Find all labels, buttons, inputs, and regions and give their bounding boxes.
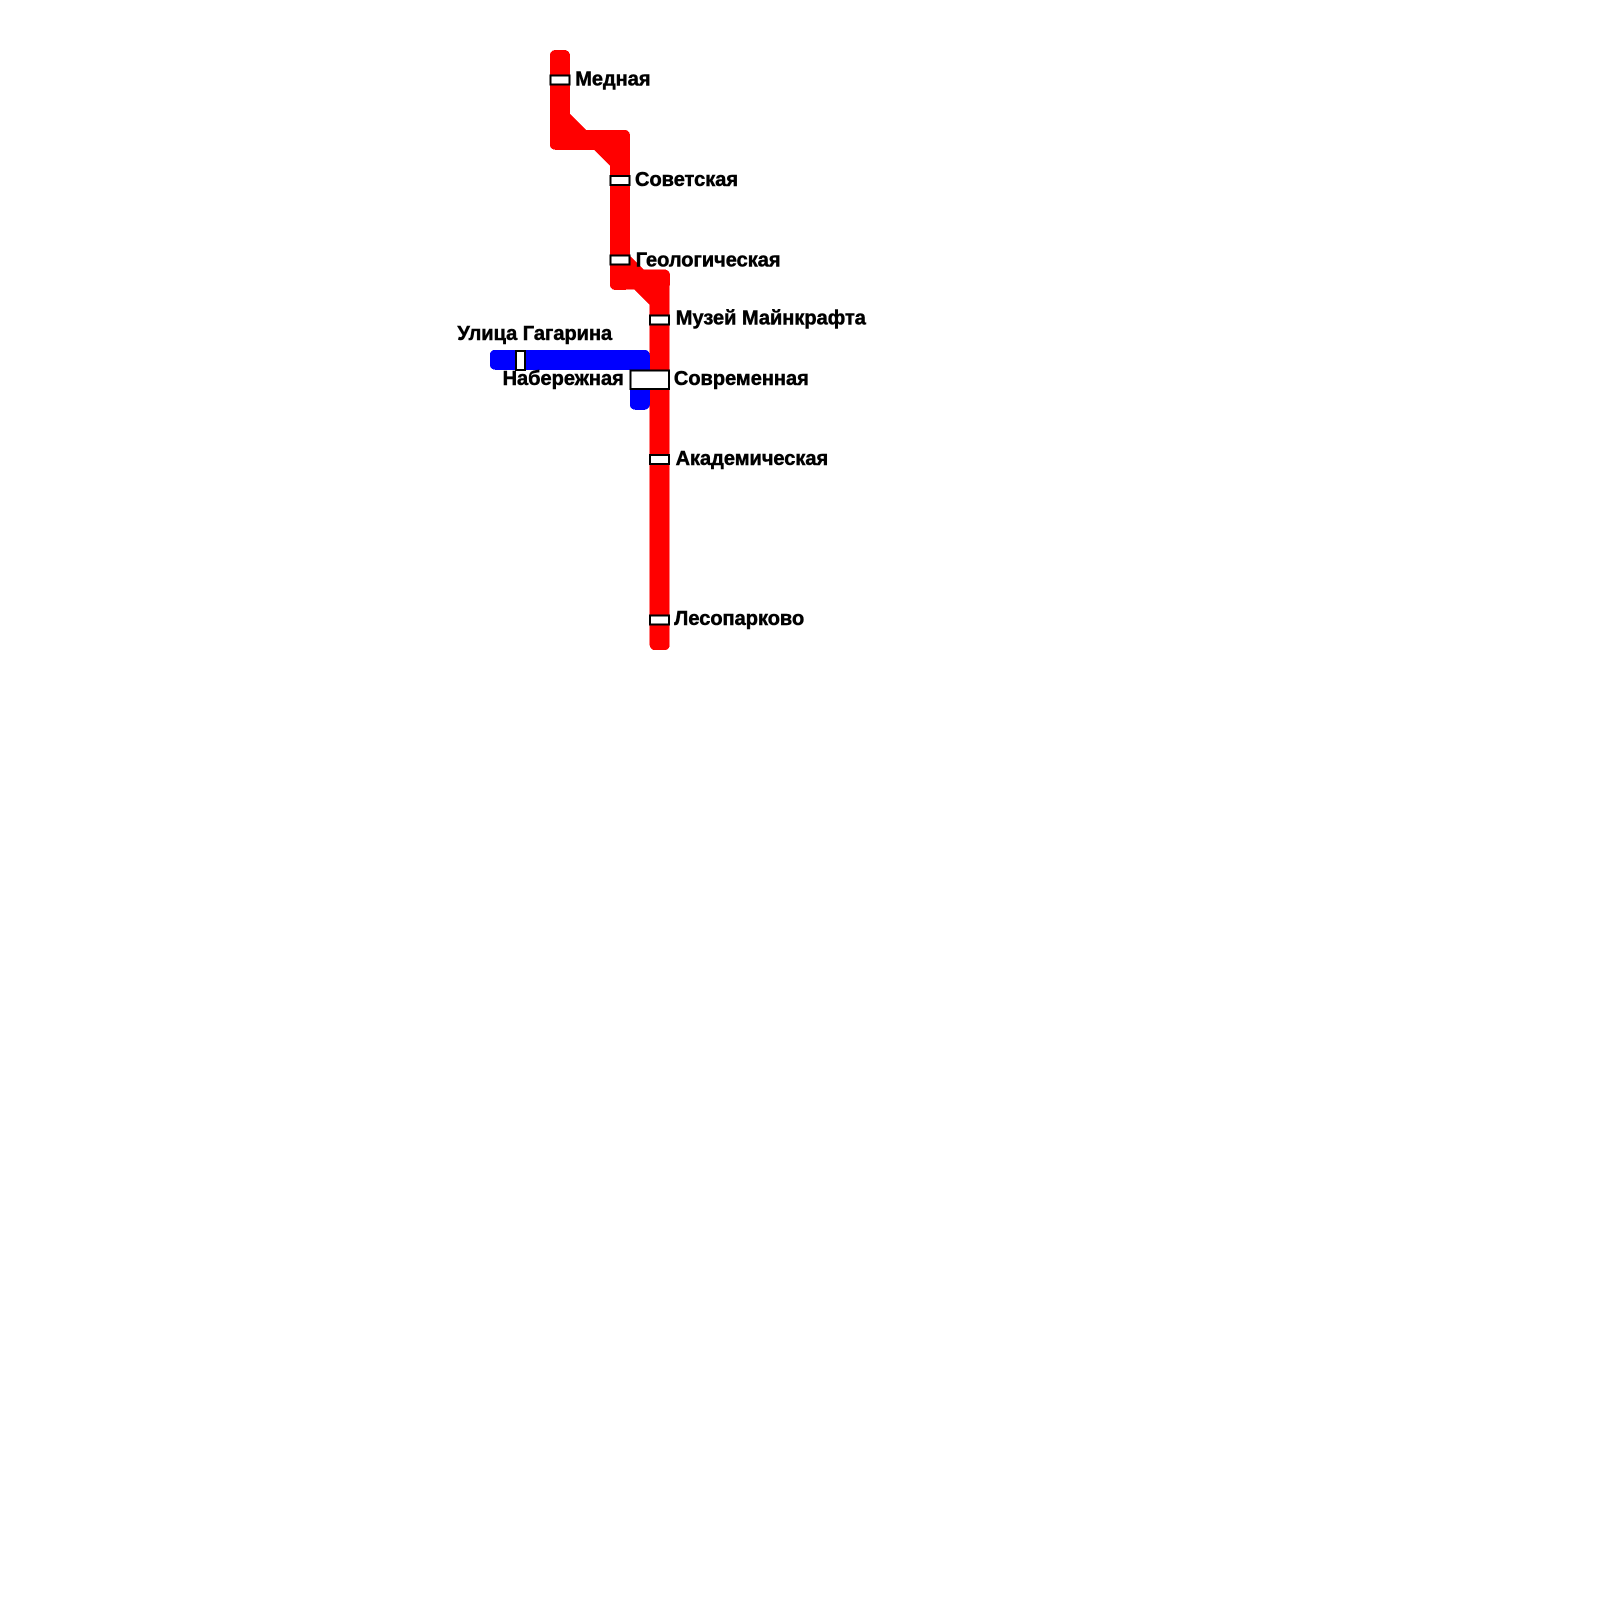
red line: horizontal connector at Музей bend [610,270,670,290]
station Академическая [650,455,669,464]
station Лесопарково [650,616,669,625]
station Геологическая [610,256,629,265]
svg-text:Медная: Медная [575,68,650,90]
red line: vertical segment Советская-Геологическая [610,130,630,290]
red line: diagonal segment Геологическая-Музей [620,260,660,300]
red line: vertical segment Музей-Лесопарково [650,270,670,651]
station Медная [550,76,569,85]
red line: horizontal jog segment [550,130,630,150]
svg-text:Геологическая: Геологическая [636,249,781,271]
red line: chamfer bend below Медная [560,118,582,140]
red line: chamfer bend toward Советская [598,140,620,162]
blue line: vertical segment down to terminus below Набережная [630,350,650,410]
station Музей Майнкрафта [650,316,669,325]
transfer station Современная / Набережная [631,370,670,388]
station Улица Гагарина [516,351,525,370]
svg-text:Академическая: Академическая [676,448,829,470]
svg-text:Лесопарково: Лесопарково [674,608,804,630]
svg-text:Набережная: Набережная [503,368,624,390]
blue line: Улица Гагарина horizontal segment [490,350,650,370]
station Советская [610,176,629,185]
red line: segment Медная vertical [550,50,570,150]
svg-text:Музей Майнкрафта: Музей Майнкрафта [676,308,867,330]
svg-text:Советская: Советская [635,169,738,191]
svg-text:Улица Гагарина: Улица Гагарина [457,323,613,345]
svg-text:Современная: Современная [674,368,809,390]
